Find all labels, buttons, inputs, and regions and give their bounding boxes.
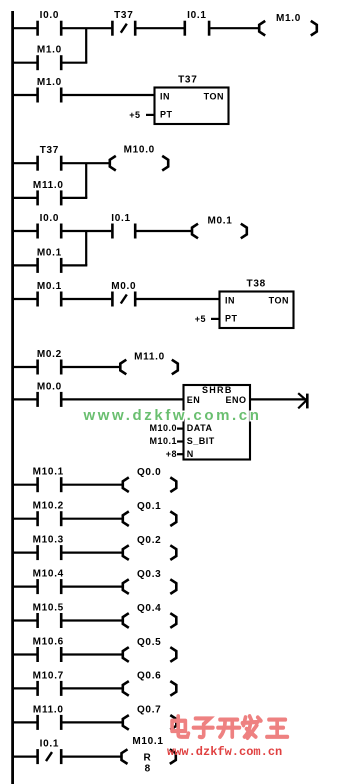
- contact M0.0: [38, 392, 62, 407]
- svg-text:M0.1: M0.1: [37, 247, 62, 258]
- wire M10.1 to coil Q0.0: [62, 484, 123, 486]
- coil M11.0: [120, 360, 178, 375]
- contact T37: [38, 156, 62, 171]
- svg-text:M10.6: M10.6: [33, 636, 64, 647]
- network 5 : wire rail to M0.1: [12, 298, 37, 300]
- wire branch M1.0 from rail: [12, 62, 37, 64]
- network 6 : wire rail to M0.2: [12, 366, 37, 368]
- wire +8 to N input: [177, 453, 184, 455]
- network 9 : wire rail to M10.2: [12, 518, 37, 520]
- svg-text:Q0.3: Q0.3: [137, 569, 161, 580]
- contact M11.0: [38, 715, 62, 730]
- svg-text:www.dzkfw.com.cn: www.dzkfw.com.cn: [167, 745, 282, 759]
- wire branch to join: [62, 62, 87, 64]
- timer box T38 TON: [220, 292, 294, 329]
- svg-text:M0.2: M0.2: [37, 349, 62, 360]
- svg-text:M0.0: M0.0: [37, 381, 62, 392]
- coil M10.0: [110, 156, 168, 171]
- coil Q0.7: [123, 715, 177, 730]
- node join parallel branch 1: [85, 28, 87, 63]
- svg-text:R: R: [144, 752, 152, 763]
- svg-text:I0.0: I0.0: [40, 10, 59, 21]
- svg-text:M1.0: M1.0: [37, 45, 62, 56]
- labels part 2: [33, 381, 247, 774]
- svg-text:M11.0: M11.0: [134, 352, 165, 363]
- svg-text:Q0.1: Q0.1: [137, 501, 161, 512]
- network 15 : wire rail to M11.0: [12, 721, 37, 723]
- wire M11.0 to coil Q0.7: [62, 721, 123, 723]
- contact M10.1: [38, 477, 62, 492]
- svg-text:IN: IN: [225, 295, 235, 305]
- node join parallel branch 3: [85, 163, 87, 198]
- network 10 : wire rail to M10.3: [12, 551, 37, 553]
- contact M10.3: [38, 545, 62, 560]
- wire I0.1 to reset coil M10.1: [62, 755, 122, 757]
- contact M0.1: [38, 292, 62, 307]
- svg-text:M10.0: M10.0: [124, 145, 155, 156]
- contact I0.0: [38, 21, 62, 36]
- wire I0.1 to coil M1.0: [210, 27, 260, 29]
- svg-text:S_BIT: S_BIT: [187, 436, 215, 446]
- wire M1.0 to TON box: [62, 94, 154, 96]
- svg-text:M11.0: M11.0: [33, 704, 64, 715]
- svg-text:I0.0: I0.0: [40, 213, 59, 224]
- shift register box SHRB U1: [184, 385, 251, 460]
- wire I0.0 to T37: [62, 27, 111, 29]
- svg-text:M0.0: M0.0: [111, 281, 136, 292]
- wire M10.5 to coil Q0.4: [62, 619, 123, 621]
- wire +5 to PT input: [146, 114, 155, 116]
- wire M0.0 to SHRB EN: [62, 398, 183, 400]
- svg-text:M1.0: M1.0: [276, 13, 301, 24]
- contact I0.1: [112, 224, 135, 239]
- svg-text:I0.1: I0.1: [187, 10, 206, 21]
- wire T37 to coil M10.0: [62, 162, 110, 164]
- contact M0.2: [38, 360, 62, 375]
- svg-text:IN: IN: [160, 91, 170, 101]
- svg-text:M0.1: M0.1: [207, 216, 232, 227]
- contact M10.4: [38, 579, 62, 594]
- svg-text:M10.7: M10.7: [33, 670, 64, 681]
- wire M0.0 to TON box T38: [136, 298, 219, 300]
- wire M0.1 to M0.0: [62, 298, 111, 300]
- left power rail: [11, 11, 14, 784]
- coil Q0.3: [123, 579, 177, 594]
- svg-text:www.dzkfw.com.cn: www.dzkfw.com.cn: [83, 407, 262, 424]
- network 14 : wire rail to M10.7: [12, 687, 37, 689]
- contact M10.5: [38, 613, 62, 628]
- svg-text:Q0.0: Q0.0: [137, 467, 161, 478]
- svg-text:M11.0: M11.0: [33, 180, 64, 191]
- wire branch M0.1 from rail: [12, 264, 37, 266]
- svg-text:SHRB: SHRB: [202, 385, 233, 395]
- wire branch M11.0 from rail: [12, 197, 37, 199]
- svg-text:Q0.7: Q0.7: [137, 705, 161, 716]
- svg-text:M10.1: M10.1: [132, 736, 163, 747]
- coil M0.1: [192, 224, 247, 239]
- reset coil M10.1 R 8: [122, 749, 176, 764]
- wire M10.6 to coil Q0.5: [62, 653, 123, 655]
- coil Q0.6: [123, 681, 177, 696]
- svg-text:M1.0: M1.0: [37, 77, 62, 88]
- svg-text:TON: TON: [269, 295, 289, 305]
- network 16 : wire rail to I0.1: [12, 755, 37, 757]
- wire I0.0 to I0.1: [62, 230, 111, 232]
- svg-text:+8: +8: [166, 449, 177, 459]
- network 1 : wire rail to I0.0: [12, 27, 37, 29]
- coil Q0.0: [123, 477, 177, 492]
- coil M1.0: [259, 21, 317, 36]
- contact M0.1 (parallel): [38, 258, 62, 273]
- svg-text:T38: T38: [247, 279, 266, 290]
- wire branch to join: [62, 197, 87, 199]
- svg-text:Q0.6: Q0.6: [137, 671, 161, 682]
- contact M10.6: [38, 647, 62, 662]
- wire ENO output: [250, 398, 306, 400]
- wire M0.2 to coil M11.0: [62, 366, 121, 368]
- arrow continuation: [298, 393, 307, 408]
- contact M1.0 (parallel): [38, 55, 62, 70]
- svg-text:T37: T37: [40, 145, 59, 156]
- svg-text:M10.3: M10.3: [33, 535, 64, 546]
- wire I0.1 to coil M0.1: [136, 230, 192, 232]
- contact T37 normally closed: [112, 21, 135, 36]
- timer box T37 TON: [155, 88, 229, 125]
- network 13 : wire rail to M10.6: [12, 653, 37, 655]
- wire M10.0 to DATA input: [177, 428, 184, 430]
- network 3 : wire rail to T37: [12, 162, 37, 164]
- svg-text:M10.0: M10.0: [149, 423, 177, 433]
- svg-text:I0.1: I0.1: [111, 213, 130, 224]
- contact I0.1: [185, 21, 209, 36]
- contact M0.0 normally closed: [112, 292, 135, 307]
- svg-text:T37: T37: [114, 10, 133, 21]
- svg-text:Q0.4: Q0.4: [137, 603, 161, 614]
- svg-text:M0.1: M0.1: [37, 281, 62, 292]
- wire M10.2 to coil Q0.1: [62, 518, 123, 520]
- wire M10.3 to coil Q0.2: [62, 551, 123, 553]
- wire T37 to I0.1: [136, 27, 183, 29]
- svg-text:N: N: [187, 449, 194, 459]
- svg-text:M10.1: M10.1: [149, 436, 177, 446]
- wire M10.7 to coil Q0.6: [62, 687, 123, 689]
- coil Q0.5: [123, 647, 177, 662]
- contact I0.1 normally closed: [38, 749, 62, 764]
- network 7 : wire rail to M0.0: [12, 398, 37, 400]
- svg-text:EN: EN: [187, 395, 201, 405]
- svg-text:M10.4: M10.4: [33, 569, 64, 580]
- svg-text:Q0.2: Q0.2: [137, 535, 161, 546]
- labels part 1: [33, 10, 301, 363]
- svg-text:M10.2: M10.2: [33, 501, 64, 512]
- svg-text:PT: PT: [225, 314, 238, 324]
- network 11 : wire rail to M10.4: [12, 585, 37, 587]
- network 2 : wire rail to M1.0: [12, 94, 37, 96]
- coil Q0.2: [123, 545, 177, 560]
- svg-text:PT: PT: [160, 110, 173, 120]
- wire +5 to PT input: [211, 318, 220, 320]
- wire branch to join: [62, 264, 87, 266]
- wire M10.4 to coil Q0.3: [62, 585, 123, 587]
- node join parallel branch 4: [85, 231, 87, 265]
- svg-text:I0.1: I0.1: [40, 739, 59, 750]
- contact I0.0: [38, 224, 62, 239]
- svg-text:8: 8: [145, 764, 151, 775]
- network 4 : wire rail to I0.0: [12, 230, 37, 232]
- svg-text:ENO: ENO: [225, 395, 246, 405]
- svg-text:T37: T37: [178, 75, 197, 86]
- svg-text:+5: +5: [129, 110, 140, 120]
- svg-text:+5: +5: [195, 314, 206, 324]
- svg-text:M10.5: M10.5: [33, 602, 64, 613]
- svg-text:DATA: DATA: [187, 423, 213, 433]
- wire M10.1 to S_BIT input: [177, 440, 184, 442]
- network 12 : wire rail to M10.5: [12, 619, 37, 621]
- contact M10.7: [38, 681, 62, 696]
- coil Q0.1: [123, 511, 177, 526]
- coil Q0.4: [123, 613, 177, 628]
- watermark pink chinese brand glyphs: [172, 716, 287, 738]
- contact M11.0 (parallel): [38, 190, 62, 205]
- svg-text:Q0.5: Q0.5: [137, 637, 161, 648]
- contact M1.0: [38, 88, 62, 103]
- network 8 : wire rail to M10.1: [12, 484, 37, 486]
- svg-text:M10.1: M10.1: [33, 467, 64, 478]
- contact M10.2: [38, 511, 62, 526]
- svg-text:TON: TON: [204, 91, 224, 101]
